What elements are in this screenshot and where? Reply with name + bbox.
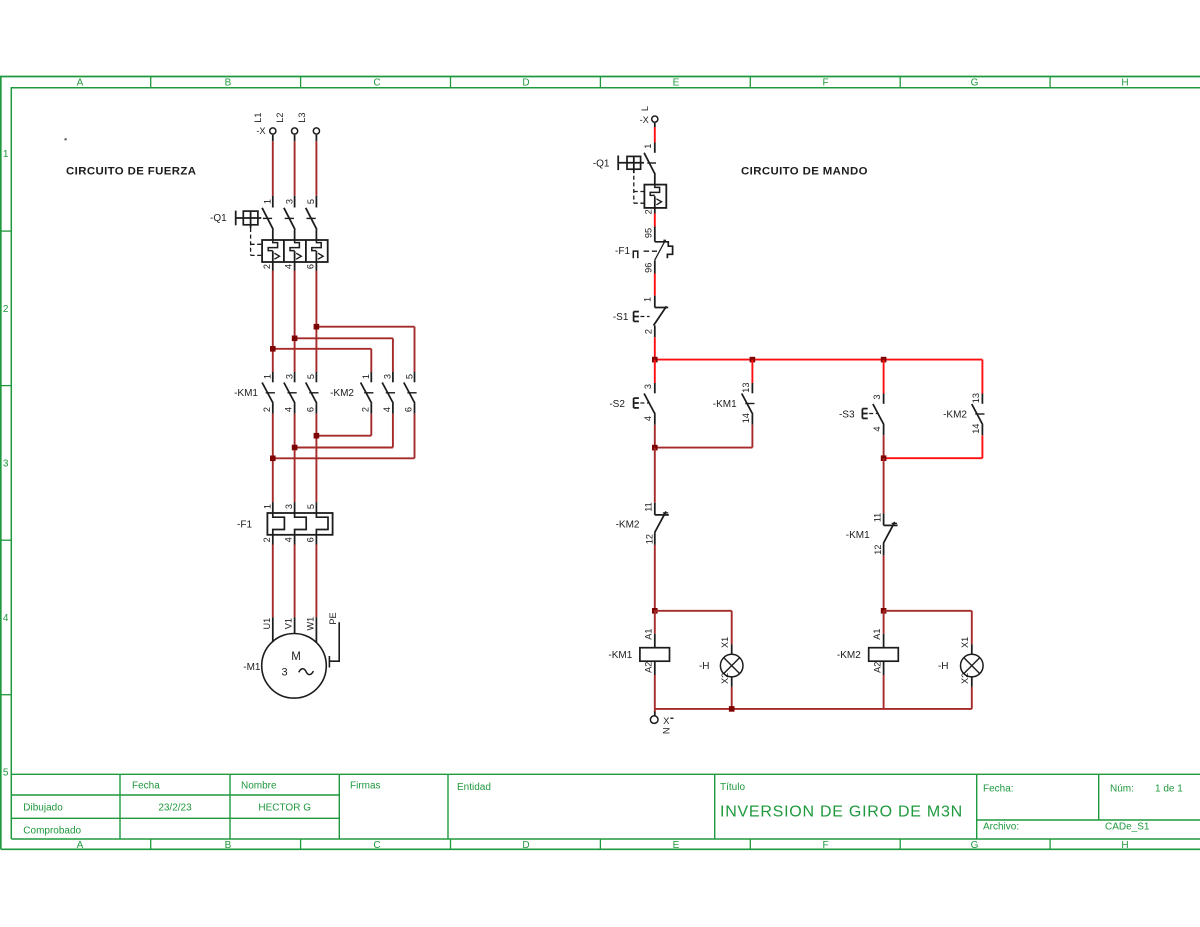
pushbutton S3 actuator — [861, 409, 863, 419]
svg-text:-KM2: -KM2 — [616, 519, 640, 530]
wire KM2 14 to S3 4 — [884, 457, 983, 459]
svg-text:H: H — [1121, 840, 1128, 851]
svg-text:13: 13 — [741, 382, 751, 392]
wire F1 to motor U1 — [272, 545, 274, 618]
motor M1 input stubs — [272, 617, 274, 642]
wire S2 4 down — [654, 425, 656, 448]
svg-text:2: 2 — [3, 304, 9, 315]
wire KM2 12 down to coil node — [654, 545, 656, 611]
wire lamp left X2 to N bus — [731, 687, 733, 709]
breaker Q1 control release element — [650, 185, 659, 196]
svg-text:A1: A1 — [872, 628, 882, 639]
aux contact KM2 linkage dash — [975, 413, 984, 415]
pushbutton S1 actuator — [633, 312, 635, 322]
svg-text:Entidad: Entidad — [457, 782, 491, 793]
control bus energized — [655, 359, 983, 361]
motor M1 body — [262, 634, 327, 699]
svg-text:12: 12 — [644, 534, 654, 544]
wire bus to S3 — [883, 360, 885, 394]
contactor KM1 linkage dashes — [266, 392, 275, 394]
svg-text:A1: A1 — [643, 628, 653, 639]
svg-text:-KM1: -KM1 — [608, 650, 632, 661]
svg-text:3: 3 — [383, 374, 393, 379]
svg-text:B: B — [225, 78, 232, 89]
svg-text:M: M — [291, 651, 301, 663]
frame column ticks bottom — [151, 839, 1050, 849]
wire KM1 output B to F1 — [294, 414, 296, 502]
wire Q1 to F1 95 — [654, 214, 656, 227]
svg-text:L: L — [640, 106, 650, 111]
svg-text:4: 4 — [284, 264, 294, 269]
wire KM1 14 down — [751, 425, 753, 448]
svg-text:A2: A2 — [873, 662, 883, 673]
svg-text:14: 14 — [971, 424, 981, 434]
breaker Q1 control linkage dash — [647, 162, 656, 164]
overload F1 input stubs — [272, 502, 274, 513]
wire bus to KM1 13 — [751, 360, 753, 383]
svg-text:B: B — [225, 840, 232, 851]
svg-text:14: 14 — [741, 413, 751, 423]
pushbutton S2 NO — [654, 383, 656, 393]
svg-text:F: F — [822, 840, 828, 851]
junction coil KM1 node — [652, 608, 658, 614]
svg-text:2: 2 — [262, 407, 272, 412]
junction S3 latch — [881, 455, 887, 461]
svg-text:Núm:: Núm: — [1110, 784, 1134, 795]
junction crossover phase B — [292, 445, 298, 451]
svg-text:E: E — [673, 78, 680, 89]
svg-text:3: 3 — [643, 384, 653, 389]
svg-text:G: G — [971, 78, 979, 89]
svg-text:-KM1: -KM1 — [713, 399, 737, 410]
svg-text:11: 11 — [644, 502, 654, 512]
svg-text:5: 5 — [306, 374, 316, 379]
wire L1 feed — [272, 141, 274, 196]
breaker Q1 control operator box — [627, 156, 641, 169]
breaker Q1 pole 1 — [272, 196, 274, 208]
svg-text:2: 2 — [644, 329, 654, 334]
terminal -X L2 — [292, 128, 298, 134]
junction bus at S2 — [652, 357, 658, 363]
svg-text:D: D — [522, 78, 529, 89]
lamp H left — [731, 644, 733, 654]
breaker Q1 pole 2 — [294, 196, 296, 208]
terminal -X N — [650, 716, 658, 724]
breaker Q1 output stubs — [272, 262, 274, 271]
wire KM2 coil A2 to N bus — [883, 675, 885, 709]
svg-text:W1: W1 — [305, 617, 315, 631]
svg-text:-H: -H — [699, 661, 710, 672]
wire N bus to terminal — [654, 709, 656, 712]
wire phase C down to KM1 — [315, 271, 317, 373]
svg-text:A: A — [77, 840, 84, 851]
junction phase C / KM2-5 — [314, 324, 320, 330]
svg-text:3: 3 — [284, 504, 294, 509]
aux contact KM1 13-14 NO — [751, 383, 753, 393]
breaker Q1 control release box — [644, 185, 666, 208]
contactor KM2 pole 2 — [392, 372, 394, 382]
terminal -X L3 — [313, 128, 319, 134]
svg-text:95: 95 — [644, 228, 654, 238]
lamp H right — [971, 644, 973, 654]
svg-text:-Q1: -Q1 — [210, 213, 227, 224]
contactor KM2 pole 3 — [414, 372, 416, 382]
wire S3 node down to KM1 11 — [883, 458, 885, 513]
frame column letters bottom — [77, 840, 1129, 851]
svg-text:-KM2: -KM2 — [837, 650, 861, 661]
svg-text:5: 5 — [3, 767, 9, 778]
wire S1 to bus — [654, 337, 656, 359]
svg-text:INVERSION DE GIRO DE M3N: INVERSION DE GIRO DE M3N — [720, 804, 963, 821]
junction crossover phase C — [314, 433, 320, 439]
svg-text:1: 1 — [361, 374, 371, 379]
breaker Q1 release box — [262, 240, 328, 262]
svg-text:4: 4 — [643, 416, 653, 421]
contactor KM1 pole 1 — [272, 372, 274, 382]
svg-text:U1: U1 — [262, 618, 272, 630]
wire L feed — [654, 127, 656, 143]
wire KM1 output A to F1 — [272, 414, 274, 502]
breaker Q1 trip linkage dashed — [250, 228, 252, 255]
overload F1 trip indicator — [633, 251, 638, 258]
wire F1 to motor V1 — [294, 545, 296, 618]
overload F1 output stubs — [272, 535, 274, 545]
aux contact KM2 11-12 NC — [654, 503, 656, 515]
svg-text:12: 12 — [873, 544, 883, 554]
terminal -X L control — [652, 116, 658, 122]
svg-text:L2: L2 — [275, 112, 285, 122]
svg-text:L1: L1 — [253, 112, 263, 122]
svg-text:CIRCUITO DE MANDO: CIRCUITO DE MANDO — [741, 166, 868, 178]
svg-text:C: C — [373, 840, 380, 851]
breaker Q1 pole 3 — [315, 196, 317, 208]
svg-text:23/2/23: 23/2/23 — [158, 803, 192, 814]
svg-text:2: 2 — [262, 537, 272, 542]
svg-text:-S2: -S2 — [609, 399, 625, 410]
svg-text:Comprobado: Comprobado — [23, 826, 81, 837]
wire branch to KM2 input 3 — [295, 337, 393, 339]
svg-text:-M1: -M1 — [243, 662, 261, 673]
svg-text:Archivo:: Archivo: — [983, 822, 1019, 833]
junction bus at KM1 13 — [750, 357, 756, 363]
svg-text:6: 6 — [305, 264, 315, 269]
breaker Q1 release elements — [268, 240, 277, 251]
aux contact KM2 13-14 NO — [981, 394, 983, 404]
coil KM1 A1-A2 — [654, 634, 656, 648]
frame column letters top — [77, 78, 1129, 89]
svg-text:-Q1: -Q1 — [593, 159, 610, 170]
wire KM2 output 6 crossover — [414, 414, 416, 459]
svg-text:Dibujado: Dibujado — [23, 803, 63, 814]
svg-text:4: 4 — [284, 537, 294, 542]
svg-text:Fecha: Fecha — [132, 781, 160, 792]
contactor KM2 linkage dashes — [364, 392, 373, 394]
wire KM2 output 4 crossover — [392, 414, 394, 448]
wire node to lamp H left — [655, 610, 732, 612]
svg-text:CADe_S1: CADe_S1 — [1105, 822, 1150, 833]
wire S2 node down to KM2 11 — [654, 448, 656, 503]
svg-text:5: 5 — [404, 374, 414, 379]
wire node to KM1 coil — [654, 611, 656, 634]
svg-text:-KM2: -KM2 — [330, 388, 354, 399]
svg-text:3: 3 — [281, 667, 287, 679]
wire lamp right X2 to N bus — [971, 687, 973, 709]
frame column ticks top — [151, 77, 1050, 88]
aux contact KM1 linkage dash — [745, 403, 754, 405]
svg-text:1: 1 — [263, 199, 273, 204]
svg-text:1 de 1: 1 de 1 — [1155, 784, 1183, 795]
svg-text:PE: PE — [328, 612, 338, 624]
svg-text:C: C — [373, 78, 380, 89]
wire branch to KM2 input 5 — [316, 326, 414, 328]
svg-text:Título: Título — [720, 782, 745, 793]
svg-text:3: 3 — [872, 395, 882, 400]
svg-text:A: A — [77, 78, 84, 89]
junction phase A / KM2-1 — [270, 346, 276, 352]
wire node to KM2 coil — [883, 611, 885, 634]
svg-text:X2: X2 — [720, 673, 730, 684]
N return bus — [655, 708, 972, 710]
junction phase B / KM2-3 — [292, 336, 298, 342]
svg-text:-F1: -F1 — [237, 520, 252, 531]
svg-text:5: 5 — [306, 504, 316, 509]
svg-text:2: 2 — [644, 209, 654, 214]
svg-text:11: 11 — [872, 513, 882, 523]
svg-text:1: 1 — [3, 149, 9, 160]
motor M1 tilde — [299, 669, 314, 675]
wire branch to KM2 input 1 — [273, 348, 372, 350]
svg-text:4: 4 — [382, 407, 392, 412]
svg-text:6: 6 — [404, 407, 414, 412]
aux contact KM1 11-12 NC — [883, 513, 885, 525]
junction bus at S3 branch — [881, 357, 887, 363]
junction S2 latch — [652, 445, 658, 451]
svg-text:G: G — [971, 840, 979, 851]
svg-text:6: 6 — [305, 407, 315, 412]
breaker Q1 linkage dashes — [263, 217, 272, 219]
svg-text:Fecha:: Fecha: — [983, 784, 1014, 795]
frame row numbers left — [3, 149, 9, 778]
svg-text:5: 5 — [306, 199, 316, 204]
title block grid — [11, 774, 1200, 839]
svg-text:Firmas: Firmas — [350, 781, 381, 792]
svg-text:F: F — [822, 78, 828, 89]
pushbutton S1 NC — [654, 296, 656, 308]
svg-text:4: 4 — [3, 613, 9, 624]
contactor KM1 pole 2 — [294, 372, 296, 382]
svg-text:3: 3 — [284, 199, 294, 204]
breaker Q1 control pole — [654, 143, 656, 153]
junction N bus lamp left — [729, 706, 735, 712]
svg-text:-KM1: -KM1 — [234, 388, 258, 399]
terminal -X L1 — [270, 128, 276, 134]
coil KM2 A1-A2 — [883, 634, 885, 648]
svg-text:V1: V1 — [284, 618, 294, 629]
svg-text:X1: X1 — [720, 637, 730, 648]
wire KM2 output 2 crossover — [370, 414, 372, 436]
svg-text:X: X — [663, 716, 669, 726]
svg-text:-F1: -F1 — [615, 246, 630, 257]
frame row ticks left — [1, 231, 12, 695]
wire bus corner to KM2 13 — [981, 360, 983, 394]
svg-text:-S1: -S1 — [613, 312, 629, 323]
svg-text:4: 4 — [284, 407, 294, 412]
svg-text:-X: -X — [640, 115, 649, 125]
wire L3 feed — [315, 141, 317, 196]
breaker Q1 operator box — [243, 211, 258, 225]
overload F1 heater elements — [273, 513, 285, 535]
wire S3 4 down — [883, 435, 885, 458]
svg-text:HECTOR G: HECTOR G — [258, 803, 311, 814]
svg-text:E: E — [673, 840, 680, 851]
svg-text:4: 4 — [872, 427, 882, 432]
svg-text:CIRCUITO DE FUERZA: CIRCUITO DE FUERZA — [66, 166, 196, 178]
contactor KM2 pole 1 — [370, 372, 372, 382]
wire node to lamp H right — [884, 610, 972, 612]
svg-text:X2: X2 — [960, 673, 970, 684]
overload contact F1 NC — [654, 227, 656, 242]
svg-text:13: 13 — [971, 393, 981, 403]
wire phase A down to KM1 — [272, 271, 274, 373]
motor PE lead — [329, 622, 339, 661]
wire F1 96 to S1 — [654, 274, 656, 296]
svg-text:96: 96 — [644, 263, 654, 273]
svg-text:X1: X1 — [960, 637, 970, 648]
wire phase B down to KM1 — [294, 271, 296, 373]
wire F1 to motor W1 — [315, 545, 317, 618]
svg-text:-X: -X — [256, 126, 265, 136]
svg-text:A2: A2 — [644, 662, 654, 673]
svg-text:1: 1 — [643, 144, 653, 149]
svg-text:-KM1: -KM1 — [846, 530, 870, 541]
svg-text:1: 1 — [262, 504, 272, 509]
junction crossover phase A — [270, 456, 276, 462]
svg-text:-S3: -S3 — [839, 409, 855, 420]
svg-text:Nombre: Nombre — [241, 781, 277, 792]
svg-text:3: 3 — [3, 458, 9, 469]
breaker Q1 control trip dashes — [633, 169, 635, 203]
svg-text:H: H — [1121, 78, 1128, 89]
wire KM1 12 down to coil node — [883, 555, 885, 610]
svg-text:L3: L3 — [297, 112, 307, 122]
svg-text:-KM2: -KM2 — [943, 409, 967, 420]
wire KM1 14 to S2 4 — [655, 447, 753, 449]
svg-text:2: 2 — [360, 407, 370, 412]
wire L2 feed — [294, 141, 296, 196]
svg-text:1: 1 — [643, 297, 653, 302]
svg-text:D: D — [522, 840, 529, 851]
stray mark — [65, 138, 67, 140]
svg-text:6: 6 — [305, 537, 315, 542]
contactor KM1 pole 3 — [315, 372, 317, 382]
wire KM1 coil A2 to N bus — [654, 675, 656, 709]
svg-text:2: 2 — [262, 264, 272, 269]
wire KM2 14 down — [981, 435, 983, 458]
pushbutton S2 actuator — [633, 398, 635, 408]
overload F1 box — [267, 513, 332, 535]
svg-text:-H: -H — [938, 661, 949, 672]
wire KM1 output C to F1 — [315, 414, 317, 502]
svg-text:1: 1 — [263, 374, 273, 379]
pushbutton S3 NO — [883, 394, 885, 404]
svg-text:3: 3 — [284, 374, 294, 379]
junction coil KM2 node — [881, 608, 887, 614]
wire bus to S2 — [654, 360, 656, 383]
svg-text:N: N — [661, 727, 671, 734]
